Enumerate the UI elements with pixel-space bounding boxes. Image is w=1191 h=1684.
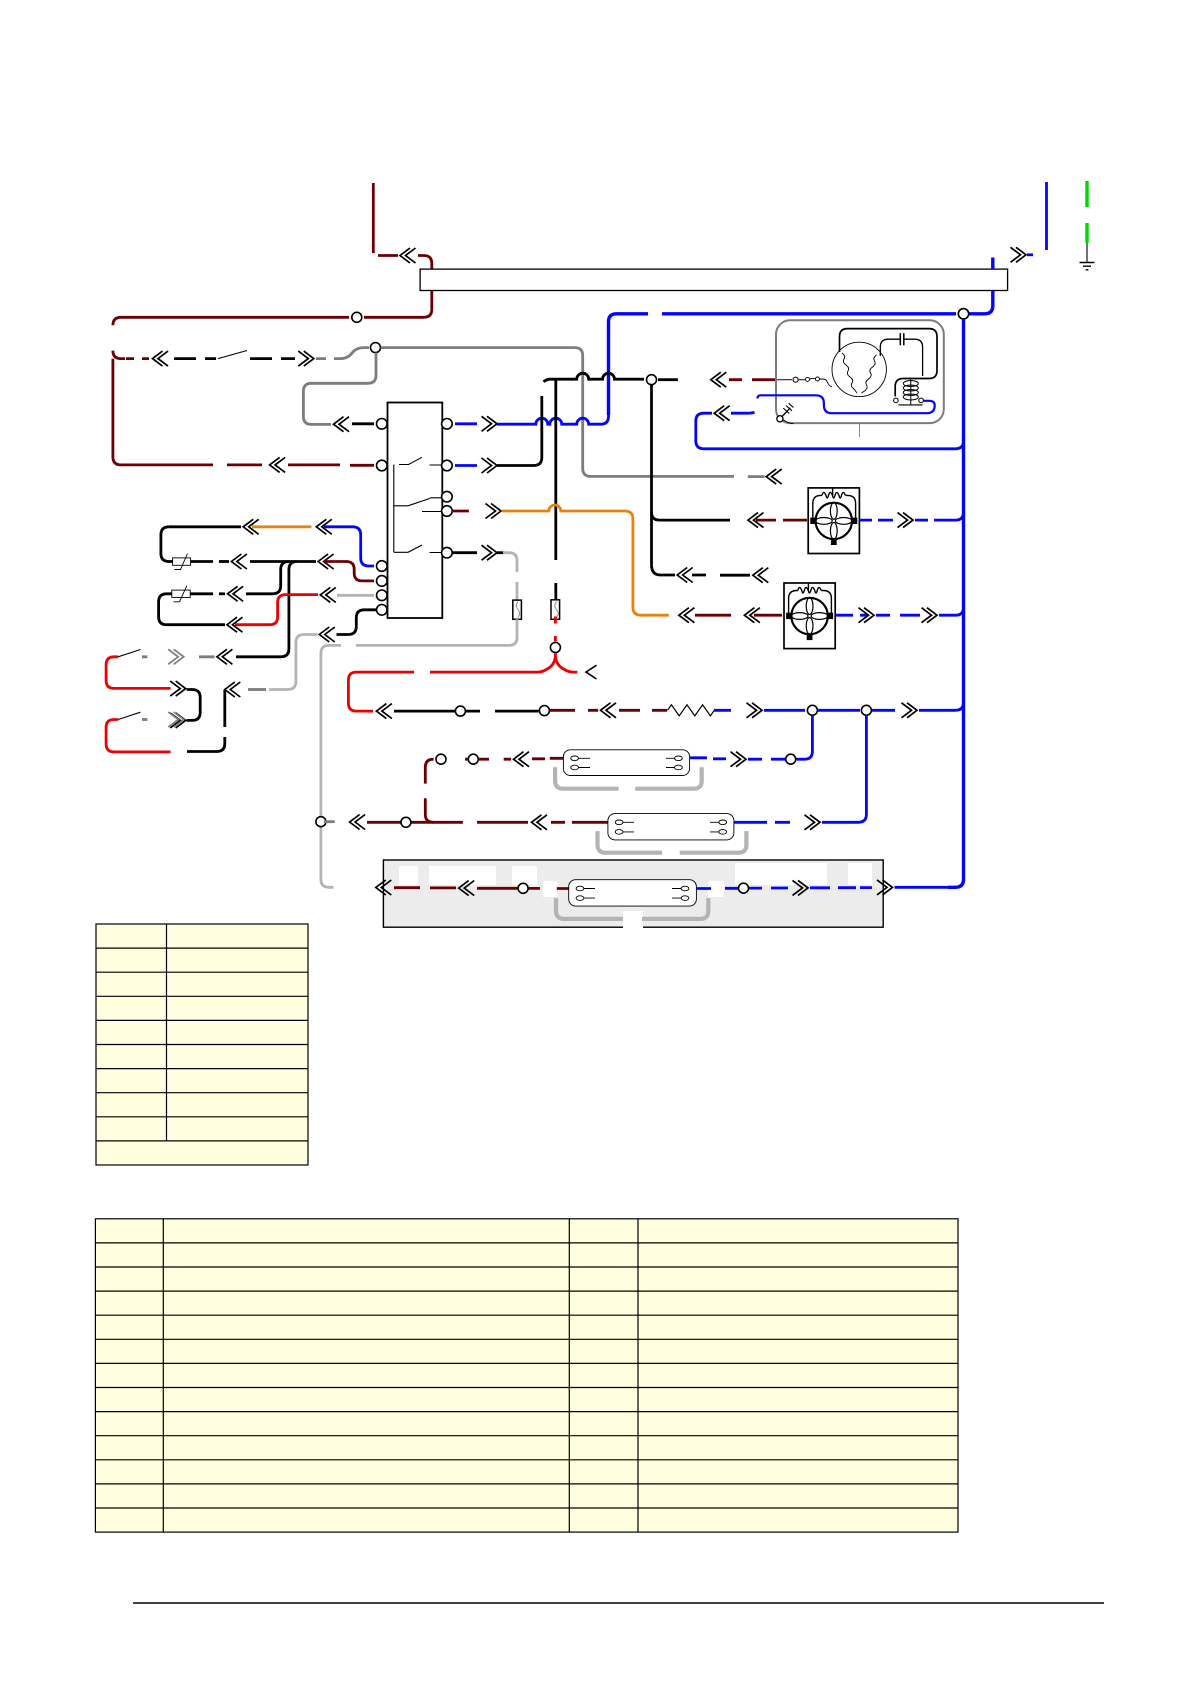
wire blue drop to lamp L2 row bbox=[855, 716, 866, 823]
open connector arrow (red line end) bbox=[586, 665, 597, 679]
fan motor FM1 (condenser fan) bbox=[808, 488, 859, 554]
wire dark red row y822 to lamp L2 bbox=[367, 821, 401, 824]
footer rule bbox=[133, 1602, 1104, 1604]
wire L supply stub (dark red, top) bbox=[372, 183, 375, 253]
ground symbol bbox=[1086, 243, 1088, 262]
red tee split bbox=[430, 656, 555, 672]
switch S2 blade bbox=[118, 650, 140, 657]
lamp L1 blue tail bbox=[690, 758, 726, 759]
wire stub dark red below terminal block bbox=[364, 291, 432, 318]
wire blue compressor return bbox=[714, 406, 730, 421]
connector arrow right of terminal block bbox=[1011, 247, 1027, 262]
node J1 on feeder bbox=[352, 312, 362, 322]
wire blue row y313 (compressor supply) bbox=[991, 258, 994, 270]
wire dark red row y887 to lamp L3 bbox=[394, 886, 456, 889]
connector bracket (black) bbox=[187, 690, 201, 721]
wire dark red stub into lamp L3 bbox=[529, 887, 569, 890]
wire orange segment row y527 bbox=[252, 525, 311, 528]
riser A (black) y593-y561 bbox=[264, 562, 289, 594]
wire light gray to lower switch (gray1) bbox=[269, 635, 318, 690]
node J15 bbox=[518, 883, 528, 893]
node J13 bbox=[861, 705, 871, 715]
wire green earth (dashed) bbox=[1085, 181, 1088, 243]
switch S3 blade bbox=[118, 712, 140, 719]
wire gray bus end arrow at panel bbox=[376, 880, 392, 895]
wire gray stub + arrow row y822 bbox=[324, 820, 335, 823]
wire dark red left drop bbox=[113, 359, 213, 465]
node J4 bbox=[647, 375, 657, 385]
PTC start device plug bbox=[777, 416, 783, 422]
lamp L1 ground loop bbox=[555, 767, 702, 789]
wire red elbow to defrost row y711 bbox=[348, 672, 414, 711]
wire black pin4L to arrow bbox=[337, 610, 377, 635]
U1 switch blade 2 bbox=[394, 498, 442, 506]
wire black drop to thermal fuse F2 bbox=[554, 379, 557, 600]
lamp panel (freezer light housing) bbox=[383, 860, 883, 927]
wire gray row y656 bbox=[142, 655, 215, 658]
node J9 bbox=[786, 754, 796, 764]
U1 internal common line bbox=[393, 465, 395, 553]
node J11 bbox=[539, 706, 549, 716]
compressor case pigtail bbox=[859, 423, 861, 437]
thermistor RT1 bbox=[191, 560, 213, 563]
connector arrow into supply bus bbox=[400, 248, 416, 263]
lamp L3 bbox=[569, 880, 697, 906]
thermistor RT2 bbox=[190, 592, 213, 595]
control unit U1 (timer/thermostat box) bbox=[388, 403, 443, 619]
wire dark red dash to lamp L2 arrow bbox=[411, 821, 528, 824]
wire gray stub to pin3L bbox=[337, 594, 374, 597]
compressor motor stator circle bbox=[832, 342, 886, 396]
feeder row continues bbox=[113, 317, 349, 358]
wire blue to trunk join bbox=[872, 709, 895, 712]
wire black row y593 bbox=[219, 592, 225, 595]
wire blue pin1R to supply riser bbox=[455, 422, 477, 425]
wire dark red riser y759-y822 bbox=[425, 759, 433, 822]
wire blue to pin1Lb bbox=[324, 527, 374, 566]
node J12 bbox=[807, 705, 817, 715]
wire red below F2 bbox=[554, 617, 557, 642]
fan motor FM2 (evaporator fan) bbox=[784, 583, 835, 649]
node J14 bbox=[401, 817, 411, 827]
thermal fuse F2 bbox=[551, 600, 560, 620]
wire black fan1 feed row y520 bbox=[650, 385, 653, 565]
wire black row y527 (freezer sensor feed) bbox=[169, 525, 241, 528]
connector arrow compressor feed bbox=[711, 372, 727, 387]
wire blue between nodes bbox=[818, 709, 860, 712]
wire dark red row y464 to pin2L bbox=[227, 463, 262, 466]
wiring code table (large) bbox=[95, 1219, 958, 1532]
wire dark red S to pin2Lb bbox=[324, 562, 374, 581]
wire dark red dashes to heater R1 bbox=[550, 709, 598, 712]
U1 switch blade 3 bbox=[394, 545, 442, 553]
thermal fuse F1 bbox=[513, 600, 522, 619]
riser B (black) y656-y561 bbox=[266, 562, 297, 657]
wire blue drop to lamp L1 row bbox=[797, 716, 813, 760]
wire black row y711 bbox=[394, 710, 455, 713]
terminal block (bus bar) bbox=[420, 269, 1008, 290]
blue trunk (right vertical) bbox=[948, 319, 964, 887]
wire black dash to compressor arrow bbox=[658, 378, 678, 381]
wire black riser y751-y689 bbox=[187, 690, 225, 752]
U1 left pins bbox=[377, 419, 388, 430]
wire pin4R orange to evap fan row bbox=[452, 510, 469, 513]
relay terminals bbox=[894, 398, 899, 403]
node J8 bbox=[468, 754, 478, 764]
wire blue fan2 to trunk bbox=[835, 614, 868, 617]
compressor M1 outer case bbox=[776, 320, 944, 423]
wire red riser to pin3L row bbox=[227, 617, 243, 632]
capacitor C1 bbox=[900, 333, 904, 345]
legend table (component list, small) bbox=[96, 924, 308, 1165]
wire dark red row y759 to lamp L1 bbox=[465, 758, 511, 761]
U1 switch blade 1 bbox=[399, 457, 442, 465]
door switch S3 red loop bbox=[106, 720, 171, 752]
node J5 (red) bbox=[550, 643, 560, 653]
wire black row y561 bbox=[219, 560, 229, 563]
wire red row y688 + connector bbox=[170, 681, 186, 696]
wire from arrow to terminal block top bbox=[418, 256, 432, 270]
wire gray J2 east to drop bbox=[381, 348, 734, 477]
wire black stub row y575 bbox=[652, 565, 676, 575]
node J3 (blue) bbox=[958, 309, 968, 319]
lamp L2 bbox=[608, 814, 734, 840]
wire pin5R to thermal fuse F1 bbox=[452, 551, 477, 554]
node J7 bbox=[436, 754, 446, 764]
wire blue mains stub (floating) bbox=[1045, 182, 1048, 250]
wire light gray bus (lamp feed) bbox=[321, 619, 517, 887]
lamp L2 ground loop bbox=[598, 831, 747, 853]
wire black elbow y593-y624 bbox=[159, 594, 225, 625]
lamp L3 ground loop bbox=[556, 898, 708, 919]
wire blue dash panel row bbox=[749, 887, 788, 890]
wire black compressor feed row y379 bbox=[544, 373, 645, 382]
node J6 on gray bus bbox=[316, 817, 326, 827]
wire blue fan1 to trunk bbox=[859, 519, 893, 522]
switch blade S1 bbox=[218, 351, 247, 359]
resistor R1 (defrost heater) bbox=[668, 705, 715, 716]
wire gray dash + arrow row y476 bbox=[748, 475, 765, 478]
node J2 (gray) bbox=[371, 343, 381, 353]
compressor main terminal bbox=[793, 377, 798, 382]
wire gray J2 south to pin1L bbox=[303, 353, 376, 425]
motor winding coils bbox=[842, 353, 857, 393]
lamp L1 bbox=[563, 750, 689, 776]
wire gray dash row y719 bbox=[142, 718, 147, 721]
lamp L3 blue tail to trunk bbox=[696, 887, 738, 890]
wire pin2R black riser bbox=[455, 464, 477, 467]
wire dark red row y615 to fan2 bbox=[679, 608, 695, 623]
compressor motor winding loop bbox=[840, 329, 938, 397]
node J16 bbox=[739, 883, 749, 893]
U1 right pins bbox=[442, 419, 453, 430]
door switch S2 red loop bbox=[106, 657, 171, 689]
start relay coil K1 bbox=[903, 378, 918, 406]
compressor internal blue run wire bbox=[757, 395, 934, 413]
wire dark red dash into heater bbox=[619, 709, 667, 712]
lamp L2 blue tail bbox=[734, 821, 790, 824]
compressor internal lead (overload protector) bbox=[798, 379, 805, 381]
wire black elbow y527-y561 bbox=[161, 527, 173, 562]
wire blue from R1 to trunk bbox=[714, 709, 731, 712]
U1 contact to pin4R bbox=[422, 511, 442, 513]
node J10 bbox=[455, 706, 465, 716]
switch row y358 (lamp door switch feed) bbox=[126, 357, 149, 360]
